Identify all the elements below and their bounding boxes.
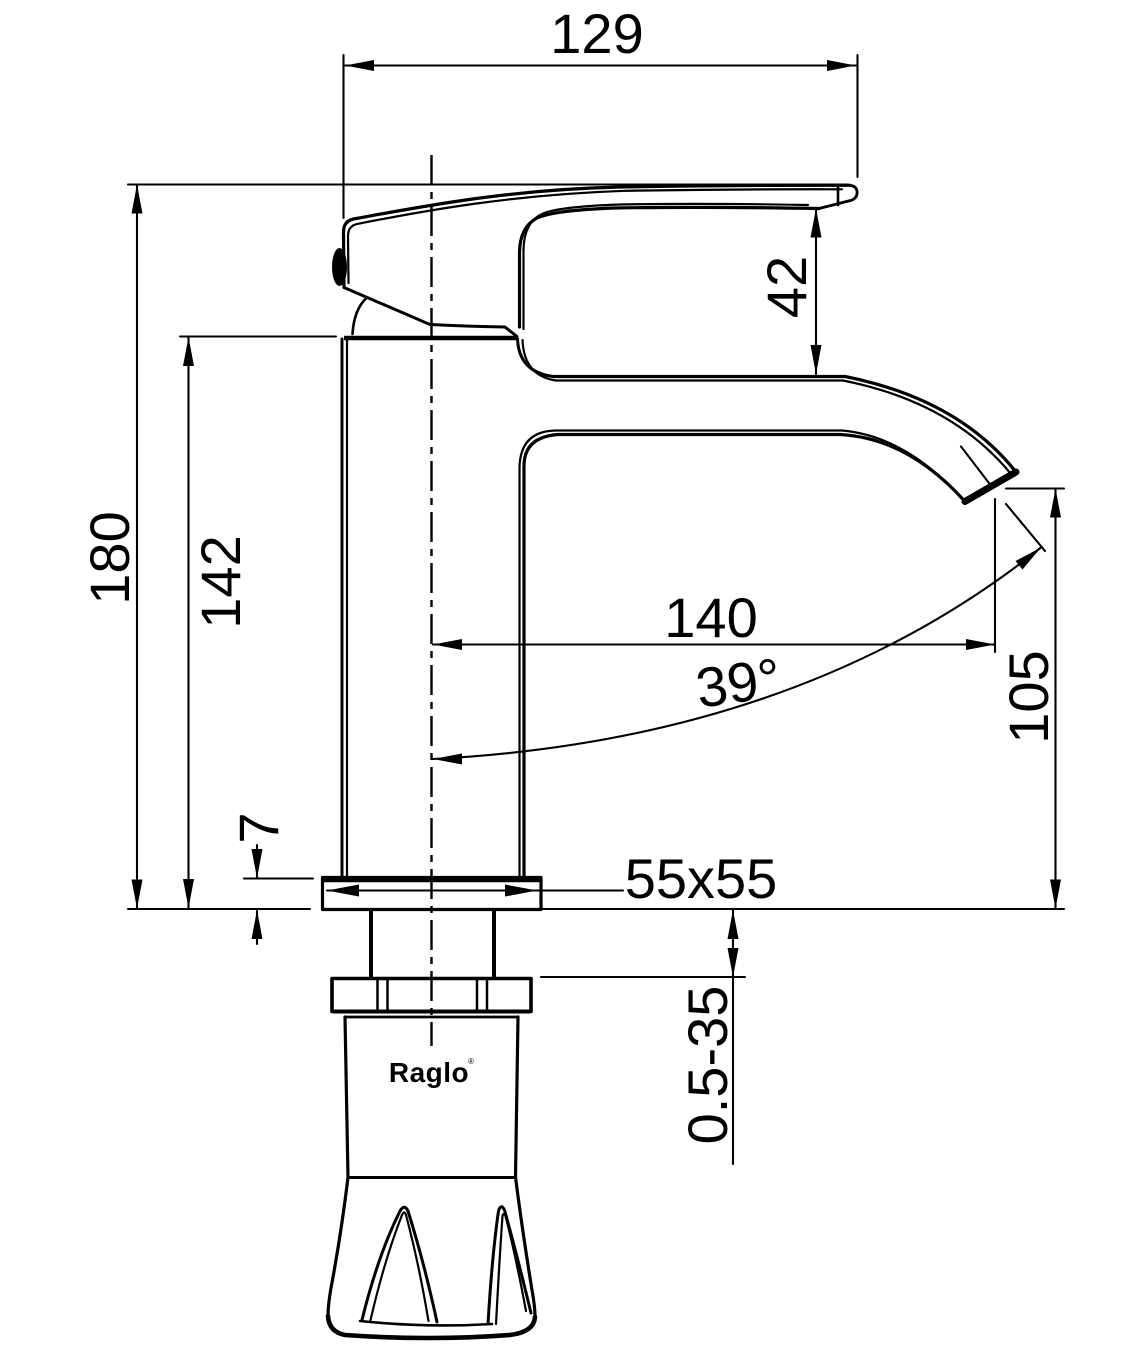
mounting surface line left [128, 908, 310, 910]
dimension 129 left extension [342, 55, 344, 218]
hose right side [516, 1017, 519, 1178]
svg-text:105: 105 [997, 650, 1060, 743]
dimension 129 right extension [856, 55, 858, 177]
svg-text:55x55: 55x55 [625, 847, 778, 910]
dimension 42 arrows [811, 209, 822, 375]
shank left edge [369, 911, 373, 977]
right grip wing outer [488, 1207, 531, 1324]
body top line [344, 336, 517, 341]
dimension 140 arrows [433, 639, 995, 650]
dimension 129 line [345, 64, 856, 66]
dimension 7 arrows [252, 849, 263, 939]
left grip wing outer [362, 1207, 437, 1322]
dimension 180 line [136, 185, 138, 909]
bell bottom outer rim [328, 1316, 535, 1338]
dimension 140 right extension [994, 499, 996, 652]
svg-text:39°: 39° [692, 646, 785, 720]
hose left side [345, 1017, 348, 1178]
nut bottom thick edge [333, 1010, 530, 1014]
svg-text:Raglo: Raglo [389, 1057, 469, 1088]
dimension 105 line [1054, 489, 1056, 909]
faucet handle skirt bottom [344, 288, 517, 337]
dimension 0.5-35 line [732, 910, 734, 1165]
angle 39 arrows [433, 548, 1041, 765]
bell left edge [328, 1178, 348, 1317]
right grip wing inner [496, 1214, 526, 1324]
centerline vertical axis [430, 155, 432, 1046]
dimension 42 line [815, 209, 817, 375]
angle 39 arc [433, 548, 1041, 760]
spout tip diagonal extension segments [961, 447, 1045, 552]
spout bottom outer edge with body right edge [524, 435, 965, 878]
faucet handle tip cap [819, 185, 857, 208]
dimension 0.5-35 extension [541, 976, 745, 978]
svg-text:129: 129 [550, 2, 643, 65]
faucet handle underside highlight [524, 204, 809, 329]
dimension 7 lower stem [256, 911, 258, 944]
svg-text:0.5-35: 0.5-35 [676, 986, 739, 1145]
base plate [323, 878, 542, 910]
dimension 7 extension [244, 877, 313, 879]
shank right edge [492, 911, 496, 977]
svg-text:7: 7 [227, 812, 290, 843]
svg-text:142: 142 [189, 535, 252, 628]
svg-text:42: 42 [755, 256, 818, 318]
spout tip aerator face [965, 472, 1016, 502]
hose mid line [348, 1176, 516, 1179]
left grip wing inner [371, 1213, 429, 1322]
svg-text:®: ® [468, 1057, 474, 1066]
hose top edge [345, 1016, 518, 1019]
dimension 142 arrows [183, 337, 194, 908]
dimension 142 line [187, 337, 189, 908]
dimension 55x55 arrow line [327, 889, 623, 891]
body-spout top corner fillet inner [523, 340, 557, 381]
spout bottom inner edge [520, 431, 962, 878]
dimension 140 line [433, 643, 995, 645]
nut outline [332, 979, 531, 1012]
body-spout top corner fillet outer [518, 339, 554, 377]
faucet handle top extension crest line [128, 183, 848, 185]
faucet handle tip divider [837, 186, 840, 206]
faucet handle top outer edge with left corner [344, 185, 851, 287]
handle button blob [332, 248, 347, 286]
svg-text:180: 180 [78, 511, 141, 604]
nut facet lines [378, 980, 488, 1011]
body left edge outer [341, 339, 344, 877]
dimension 105 arrows [1050, 489, 1061, 909]
dimension 0.5-35 arrows [728, 910, 739, 977]
dimension 129 arrows [345, 60, 856, 71]
dimension 142 top extension [180, 335, 336, 337]
dimension 105 top extension [1006, 487, 1064, 489]
cartridge dome arc [353, 298, 368, 335]
dimension 7 upper stem [256, 845, 258, 877]
spout top outer edge [553, 377, 1016, 473]
dimension 180 arrows [132, 185, 143, 909]
mounting surface line right [322, 908, 1064, 910]
base plate thick top [323, 877, 540, 883]
dimension 55x55 arrows [327, 885, 537, 897]
faucet handle top inner edge [348, 189, 842, 283]
body left edge inner [346, 340, 348, 876]
svg-text:140: 140 [664, 586, 757, 649]
spout top inner edge [556, 381, 1011, 475]
bell bottom inner rim [360, 1321, 492, 1325]
bell right edge [516, 1178, 536, 1318]
faucet handle underside contour [520, 207, 820, 327]
